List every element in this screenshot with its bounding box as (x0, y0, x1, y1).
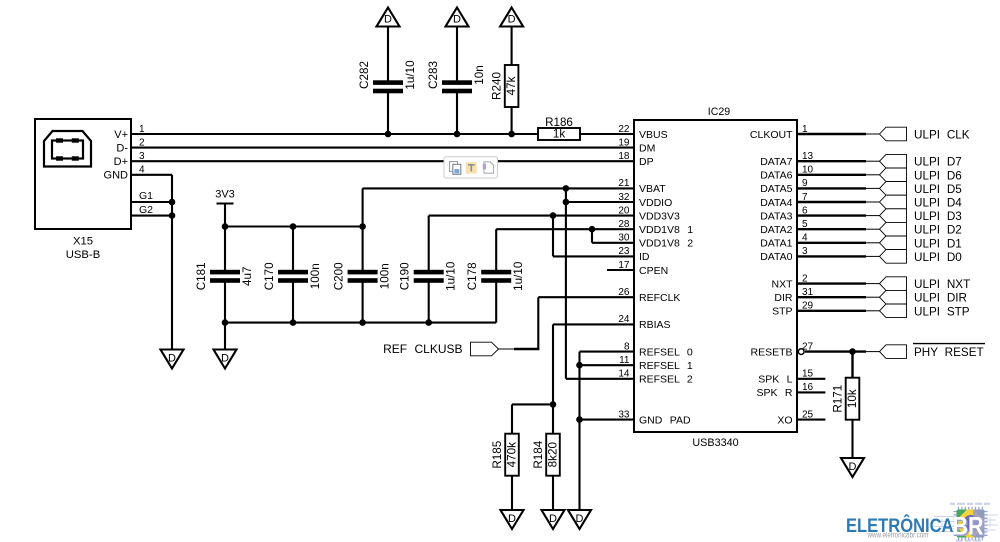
wire bus ULPI D3 (797, 214, 880, 216)
svg-text:D: D (384, 14, 392, 26)
wire C170 top to rail (292, 227, 294, 271)
svg-text:IC29: IC29 (708, 106, 730, 118)
pin 22 VBUS (618, 124, 667, 141)
svg-text:14: 14 (618, 369, 630, 380)
wire G2 to gnd net (131, 215, 172, 217)
wire bus ULPI D4 (797, 201, 880, 203)
ground top of C283 (446, 8, 469, 27)
svg-text:GND: GND (104, 170, 129, 182)
svg-text:17: 17 (618, 260, 630, 271)
svg-text:26: 26 (618, 287, 630, 298)
svg-text:8: 8 (624, 341, 630, 352)
net flag PHY RESET (880, 344, 986, 360)
svg-text:BR: BR (953, 513, 984, 541)
pin 29 STP (772, 301, 813, 318)
resistor R185 470k (491, 434, 519, 476)
net flag ULPI D2 (880, 222, 962, 236)
pin 7 DATA4 (760, 192, 808, 209)
svg-text:R240: R240 (491, 72, 504, 100)
resistor R240 47k (491, 65, 519, 107)
svg-text:1u/10: 1u/10 (512, 261, 525, 291)
svg-text:ULPI D6: ULPI D6 (914, 169, 962, 182)
wire R240 to gnd top (511, 27, 513, 66)
svg-text:ULPI DIR: ULPI DIR (914, 292, 967, 305)
net flag ULPI DIR (880, 290, 967, 304)
svg-text:VDDIO: VDDIO (639, 197, 672, 209)
ground top of C282 (377, 8, 400, 27)
svg-text:D: D (508, 513, 516, 525)
junction R240 on VBUS (508, 131, 515, 138)
wire bus ULPI D0 (797, 255, 880, 257)
pin 24 RBIAS (618, 314, 670, 331)
svg-text:1k: 1k (553, 128, 565, 141)
resistor R186 1k (538, 116, 580, 141)
net flag ULPI D3 (880, 209, 962, 223)
capacitor C282 1u/10 (358, 60, 417, 93)
svg-text:C178: C178 (466, 262, 479, 290)
wire R185 to gnd (511, 476, 513, 511)
svg-text:4u7: 4u7 (241, 267, 254, 287)
wire bus ULPI D1 (797, 242, 880, 244)
connector X15 USB-B body (35, 119, 131, 229)
svg-text:ULPI NXT: ULPI NXT (914, 278, 970, 291)
pin 33 GND PAD (618, 409, 691, 426)
USB-B receptacle symbol (44, 131, 91, 167)
svg-text:X15: X15 (73, 236, 93, 248)
net flag REF CLKUSB (383, 342, 498, 356)
svg-text:10k: 10k (846, 389, 859, 408)
pin 28 VDD1V8 1 (618, 219, 693, 236)
wire C170 bottom (292, 282, 294, 323)
junction C170 bottom (290, 319, 297, 326)
wire C282 to gnd top (387, 27, 389, 82)
wire REFSEL1 to IC pin 11 (580, 364, 635, 366)
svg-text:28: 28 (618, 219, 630, 230)
wire C283 to gnd top (456, 27, 458, 82)
svg-text:ULPI D2: ULPI D2 (914, 224, 962, 237)
svg-text:USB-B: USB-B (66, 249, 101, 261)
wire bottom gnd rail of cap bank (225, 322, 496, 324)
svg-text:REFSEL 1: REFSEL 1 (639, 360, 693, 372)
svg-text:33: 33 (618, 409, 630, 420)
svg-text:C170: C170 (263, 262, 276, 290)
net flag ULPI D6 (880, 168, 962, 182)
svg-text:D-: D- (116, 142, 128, 154)
wire REFCLK to IC pin 26 (538, 296, 634, 298)
svg-text:ULPI CLK: ULPI CLK (914, 129, 970, 142)
pin 19 DM (618, 137, 655, 154)
svg-text:CLKOUT: CLKOUT (750, 129, 793, 141)
wire VBUS net V+ from X15 to R186 (131, 133, 538, 135)
wire C200 top to VBAT line (362, 188, 364, 270)
svg-text:23: 23 (618, 246, 630, 257)
capacitor C170 100n (263, 262, 322, 290)
wire GND from X15 pin4 (131, 175, 172, 351)
svg-text:www.eletronicabr.com: www.eletronicabr.com (867, 530, 929, 540)
pin 17 CPEN (618, 260, 668, 277)
junction C282 on VBUS (385, 131, 392, 138)
svg-text:21: 21 (618, 178, 630, 189)
svg-text:D: D (168, 352, 176, 364)
svg-text:D: D (453, 14, 461, 26)
wire C190 bottom (428, 282, 430, 323)
net flag ULPI D7 (880, 154, 962, 168)
svg-text:DATA3: DATA3 (760, 210, 792, 222)
capacitor C178 1u/10 (466, 261, 525, 291)
svg-text:DATA6: DATA6 (760, 170, 792, 182)
svg-text:R184: R184 (532, 440, 545, 468)
svg-text:NXT: NXT (772, 278, 794, 290)
svg-text:REF CLKUSB: REF CLKUSB (383, 342, 462, 356)
svg-text:ID: ID (639, 251, 650, 263)
wire VDD1V8 2 to IC pin 30 (592, 242, 634, 244)
svg-text:VBUS: VBUS (639, 129, 668, 141)
svg-text:24: 24 (618, 314, 630, 325)
pin 27 RESETB (750, 341, 813, 358)
capacitor C181 4u7 (195, 262, 254, 290)
svg-text:SPK R: SPK R (756, 387, 792, 399)
pin 16 SPK R (756, 382, 813, 399)
ground REFSEL/GNDPAD (568, 510, 591, 529)
watermark ELETRONICABR logo text (846, 513, 985, 542)
pin 18 DP (618, 151, 653, 168)
svg-text:XO: XO (777, 414, 792, 426)
junction C181 top (222, 223, 229, 230)
pin 26 REFCLK (618, 287, 680, 304)
ground R185 (501, 510, 524, 529)
svg-text:VDD1V8 1: VDD1V8 1 (639, 224, 693, 236)
wire RBIAS to IC pin 24 (553, 323, 634, 325)
wire REFCLK elbow down (537, 297, 539, 349)
net flag ULPI D4 (880, 195, 963, 209)
svg-text:100n: 100n (309, 263, 322, 289)
svg-text:DATA1: DATA1 (760, 238, 792, 250)
wire bus ULPI D5 (797, 187, 880, 189)
ground cap bank (214, 350, 237, 369)
pin 14 REFSEL 2 (618, 369, 692, 386)
wire C282 to VBUS (387, 93, 389, 135)
svg-text:1u/10: 1u/10 (445, 261, 458, 291)
svg-text:SPK L: SPK L (758, 374, 792, 386)
pin 25 XO (777, 409, 813, 426)
net flag ULPI D5 (880, 182, 963, 196)
wire bus ULPI D6 (797, 174, 880, 176)
pin 3 DATA0 (760, 246, 808, 263)
svg-text:DIR: DIR (774, 292, 793, 304)
junction VDDIO (563, 199, 570, 206)
pin stub SPK R pin 16 (797, 391, 825, 393)
svg-text:REFSEL 2: REFSEL 2 (639, 374, 693, 386)
net flag ULPI NXT (880, 277, 971, 291)
wire C200 bottom (362, 282, 364, 323)
svg-text:DATA2: DATA2 (760, 224, 792, 236)
svg-text:VDD3V3: VDD3V3 (639, 210, 680, 222)
svg-text:DATA4: DATA4 (760, 197, 792, 209)
wire ID to IC pin 23 (553, 255, 634, 257)
junction RESETB R171 (849, 348, 856, 355)
wire R171 to gnd (851, 420, 853, 459)
junction C200 top rail (359, 223, 366, 230)
svg-text:R185: R185 (491, 440, 504, 468)
svg-text:R171: R171 (832, 385, 845, 413)
junction G1 (169, 199, 176, 206)
net flag ULPI STP (880, 304, 970, 318)
resistor R184 8k20 (532, 434, 560, 476)
svg-text:DATA0: DATA0 (760, 251, 792, 263)
svg-text:D: D (849, 461, 857, 473)
svg-text:D: D (549, 513, 557, 525)
net flag ULPI CLK (880, 127, 970, 141)
wire C190 top to VDD3V3 line (428, 216, 430, 271)
supply 3V3 (215, 189, 235, 227)
pin 21 VBAT (618, 178, 666, 195)
ground R171 (841, 458, 864, 477)
svg-text:ULPI D1: ULPI D1 (914, 237, 962, 250)
pin stub XO pin 25 (797, 419, 825, 421)
ground R184 (542, 510, 565, 529)
svg-text:22: 22 (618, 124, 630, 135)
wire C178 top to VDD1V8 line (495, 229, 497, 270)
svg-text:C200: C200 (333, 262, 346, 290)
wire to REF CLKUSB flag (499, 348, 540, 350)
svg-text:D+: D+ (114, 156, 128, 168)
svg-text:C181: C181 (195, 262, 208, 290)
svg-text:ULPI D7: ULPI D7 (914, 156, 962, 169)
junction C200 bottom (359, 319, 366, 326)
svg-text:11: 11 (619, 355, 630, 366)
svg-text:ULPI D4: ULPI D4 (914, 197, 962, 210)
svg-text:ULPI D3: ULPI D3 (914, 210, 962, 223)
wire RESETB down to R171 (851, 352, 853, 378)
svg-text:100n: 100n (379, 263, 392, 289)
svg-text:19: 19 (618, 137, 630, 148)
capacitor C200 100n (333, 262, 392, 290)
wire C181 top to rail (224, 227, 226, 271)
pin 8 REFSEL 0 (624, 341, 693, 358)
svg-text:C282: C282 (358, 61, 371, 89)
resistor R171 10k (832, 378, 860, 420)
wire bus ULPI DIR (797, 296, 880, 298)
net flag ULPI D0 (880, 250, 963, 264)
wire C181 bottom to gnd rail and gnd (224, 282, 226, 351)
pin 5 DATA2 (760, 219, 808, 236)
svg-text:32: 32 (618, 192, 630, 203)
op IC29 USB3340 body (634, 120, 797, 432)
toolbar overlay (444, 157, 498, 178)
svg-text:D: D (508, 14, 516, 26)
pin stub SPK L pin 15 (797, 378, 825, 380)
svg-text:20: 20 (618, 205, 630, 216)
pin 23 ID (618, 246, 650, 263)
net flag ULPI D1 (880, 236, 962, 250)
wire REFSEL2 to IC pin 14 (566, 378, 634, 380)
junction GND PAD (576, 416, 583, 423)
wire C283 to VBUS (456, 93, 458, 135)
watermark circuit traces (934, 515, 998, 532)
wire RESETB to flag (805, 350, 880, 352)
pin bubble RESETB (798, 349, 804, 355)
svg-text:DATA7: DATA7 (760, 156, 792, 168)
pin 15 SPK L (758, 369, 813, 386)
svg-text:GND PAD: GND PAD (639, 414, 691, 426)
junction VDD1V8 branch (589, 226, 596, 233)
wire REFSEL0 to IC pin 8 (580, 351, 635, 353)
pin 13 DATA7 (760, 151, 813, 168)
svg-text:470k: 470k (506, 442, 519, 468)
wire C178 bottom to gnd rail end (495, 282, 497, 323)
svg-text:PHY RESET: PHY RESET (914, 346, 984, 359)
wire bus ULPI D7 (797, 160, 880, 162)
wire bus ULPI D2 (797, 228, 880, 230)
svg-text:47k: 47k (505, 76, 518, 95)
ground top of R240 (500, 8, 523, 27)
wire VDD1V8 to IC pin 28 (496, 228, 634, 230)
junction VBAT branch (563, 185, 570, 192)
wire VDDIO to IC pin 32 (566, 201, 634, 203)
pin 1 CLKOUT (750, 124, 808, 141)
wire bus ULPI STP (797, 310, 880, 312)
svg-text:DM: DM (639, 142, 655, 154)
svg-text:G1: G1 (139, 190, 153, 202)
wire RBIAS down to R184 (552, 324, 554, 433)
svg-text:D: D (221, 352, 229, 364)
svg-text:STP: STP (772, 306, 792, 318)
svg-text:CPEN: CPEN (639, 265, 668, 277)
svg-text:RESETB: RESETB (750, 346, 792, 358)
wire R186 to IC VBUS pin 22 (580, 133, 634, 135)
pin 6 DATA3 (760, 205, 808, 222)
svg-text:VDD1V8 2: VDD1V8 2 (639, 238, 693, 250)
pin 11 REFSEL 1 (619, 355, 693, 372)
pin 4 DATA1 (760, 233, 808, 250)
svg-text:18: 18 (618, 151, 630, 162)
junction REFSEL1 (576, 362, 583, 369)
svg-text:ULPI D5: ULPI D5 (914, 183, 962, 196)
junction C283 on VBUS (454, 131, 461, 138)
svg-text:DATA5: DATA5 (760, 183, 792, 195)
junction G2 (169, 212, 176, 219)
pin 10 DATA6 (760, 165, 813, 182)
junction VDD3V3 branch to ID (550, 212, 557, 219)
pin 9 DATA5 (760, 178, 808, 195)
svg-text:USB3340: USB3340 (692, 437, 738, 449)
pin 30 VDD1V8 2 (618, 233, 693, 250)
svg-text:G2: G2 (139, 204, 153, 216)
pin 32 VDDIO (618, 192, 672, 209)
svg-text:V+: V+ (114, 129, 128, 141)
wire DM from X15 to IC pin 19 (131, 147, 634, 149)
wire VBAT branch down to REFSEL2 (565, 188, 567, 378)
junction RBIAS/R185/R184 (550, 401, 557, 408)
pin 20 VDD3V3 (618, 205, 680, 222)
svg-text:1u/10: 1u/10 (404, 60, 417, 90)
svg-text:REFSEL 0: REFSEL 0 (639, 346, 693, 358)
svg-text:3V3: 3V3 (215, 189, 235, 201)
pin 2 NXT (772, 273, 809, 290)
svg-text:30: 30 (618, 233, 630, 244)
svg-text:VBAT: VBAT (639, 183, 666, 195)
wire R240 to VBUS (511, 107, 513, 134)
junction C170 top (290, 223, 297, 230)
wire R184 to gnd (552, 476, 554, 511)
pin stub CPEN pin 17 (607, 269, 634, 271)
ground usb shield (161, 350, 184, 369)
wire GND PAD to IC pin 33 (580, 419, 635, 421)
svg-text:REFCLK: REFCLK (639, 292, 680, 304)
svg-text:DP: DP (639, 156, 654, 168)
wire 3V3 top rail (225, 225, 363, 227)
wire bus ULPI CLK (797, 133, 880, 135)
svg-text:ULPI STP: ULPI STP (914, 305, 970, 318)
wire VBAT to IC pin 21 (363, 187, 634, 189)
svg-text:C190: C190 (399, 262, 412, 290)
svg-text:RBIAS: RBIAS (639, 319, 671, 331)
wire bus ULPI NXT (797, 282, 880, 284)
svg-text:8k20: 8k20 (547, 442, 560, 468)
wire to R185 (512, 404, 553, 433)
watermark chip graphic (950, 504, 990, 541)
svg-text:D: D (576, 513, 584, 525)
wire REFSEL gnd vertical (578, 352, 580, 511)
wire branch down to ID (552, 216, 554, 257)
junction C181 bottom (222, 319, 229, 326)
junction C190 bottom (425, 319, 432, 326)
pin 31 DIR (774, 287, 813, 304)
capacitor C190 1u/10 (399, 261, 458, 291)
capacitor C283 10n (427, 61, 486, 93)
svg-text:10n: 10n (473, 65, 486, 85)
wire DP from X15 to IC pin 18 (131, 160, 634, 162)
svg-text:C283: C283 (427, 61, 440, 89)
svg-text:ULPI D0: ULPI D0 (914, 251, 962, 264)
wire G1 to gnd net (131, 201, 172, 203)
wire branch down to pin 30 (591, 229, 593, 243)
wire VDD3V3 to IC pin 20 (429, 215, 634, 217)
